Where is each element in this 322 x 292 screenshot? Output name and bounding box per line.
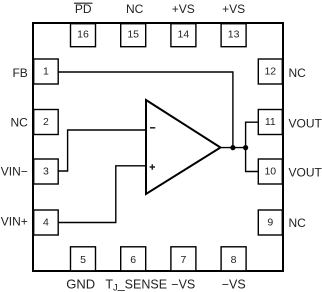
- svg-text:6: 6: [130, 254, 136, 266]
- svg-text:5: 5: [80, 254, 86, 266]
- svg-text:8: 8: [231, 254, 237, 266]
- svg-text:7: 7: [180, 254, 186, 266]
- svg-text:VIN−: VIN−: [1, 165, 28, 179]
- svg-text:13: 13: [228, 28, 240, 40]
- svg-text:14: 14: [178, 28, 190, 40]
- svg-text:TJ_SENSE: TJ_SENSE: [105, 278, 167, 292]
- svg-text:NC: NC: [289, 66, 307, 80]
- svg-text:+VS: +VS: [172, 2, 195, 16]
- svg-text:4: 4: [43, 216, 49, 228]
- svg-text:PD: PD: [75, 2, 92, 16]
- svg-text:−VS: −VS: [171, 278, 195, 292]
- svg-text:+VS: +VS: [222, 2, 245, 16]
- svg-text:FB: FB: [12, 66, 27, 80]
- svg-text:9: 9: [267, 216, 273, 228]
- svg-text:GND: GND: [66, 277, 95, 292]
- svg-text:VOUT: VOUT: [289, 165, 322, 179]
- svg-text:VOUT: VOUT: [289, 116, 322, 130]
- svg-text:NC: NC: [10, 116, 28, 130]
- svg-text:10: 10: [264, 165, 276, 177]
- svg-text:16: 16: [77, 28, 89, 40]
- svg-text:2: 2: [43, 116, 49, 128]
- svg-text:NC: NC: [289, 216, 307, 230]
- svg-text:VIN+: VIN+: [1, 215, 28, 229]
- svg-text:−VS: −VS: [222, 278, 246, 292]
- svg-text:11: 11: [265, 116, 276, 128]
- svg-text:NC: NC: [126, 2, 144, 16]
- svg-text:15: 15: [127, 28, 139, 40]
- svg-text:3: 3: [43, 165, 49, 177]
- svg-text:1: 1: [43, 65, 49, 77]
- svg-text:12: 12: [264, 65, 276, 77]
